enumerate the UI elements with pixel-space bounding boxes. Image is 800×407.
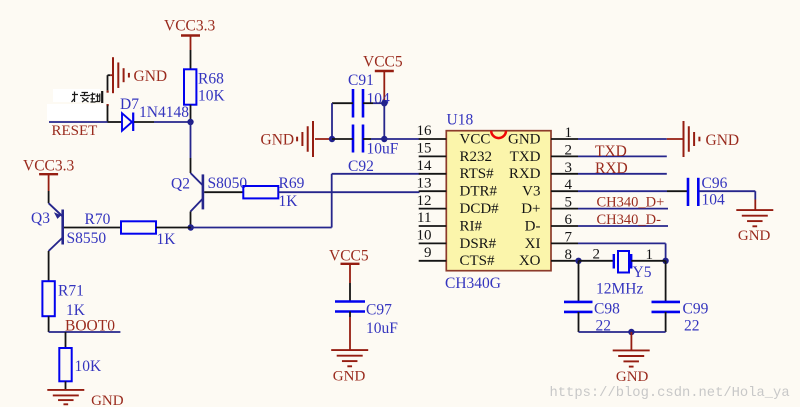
svg-text:RI#: RI#	[460, 218, 483, 234]
svg-text:4: 4	[565, 177, 573, 193]
wire RESET net	[49, 121, 108, 123]
svg-text:S8550: S8550	[67, 230, 107, 247]
wire VCC3.3 to Q3 emitter	[48, 191, 50, 203]
ground GND (button) lead	[108, 74, 114, 76]
capacitor C92 body	[353, 125, 363, 153]
capacitor C97 body	[335, 302, 365, 312]
svg-text:GND: GND	[706, 132, 740, 149]
svg-text:R68: R68	[198, 71, 224, 88]
wire Q3 collector down	[48, 251, 50, 281]
pin 4 stub (right)	[551, 190, 578, 192]
wire Q2 base to R69	[204, 191, 243, 193]
svg-text:7: 7	[565, 229, 573, 245]
wire pin4 V3 (blue)	[578, 190, 667, 192]
capacitor C96 body	[688, 178, 698, 206]
wire crystal to right node	[631, 260, 665, 262]
resistor R71 body	[42, 281, 54, 316]
wire C97 to ground (red)	[349, 317, 351, 350]
svg-text:DSR#: DSR#	[460, 236, 497, 252]
wire pin7 XI down	[665, 243, 667, 260]
wire right node down to C99	[665, 261, 667, 302]
svg-text:CTS#: CTS#	[460, 253, 496, 269]
wire C91 right (blue)	[373, 102, 384, 104]
wire to crystal ground	[630, 332, 632, 350]
wire TXD net	[578, 155, 667, 157]
svg-text:XO: XO	[519, 253, 541, 269]
wire R70 to emitter node	[156, 227, 191, 229]
svg-text:10: 10	[417, 228, 432, 244]
svg-text:CH340_D-: CH340_D-	[597, 212, 662, 228]
power VCC5 (mid) bar	[375, 70, 394, 72]
capacitor C99 body	[652, 302, 681, 312]
ground GND (BOOT0) symbol	[47, 390, 84, 404]
power VCC3.3 (left) bar	[39, 173, 58, 175]
ground GND (C97) symbol	[331, 350, 368, 366]
wire pin7 XI right	[578, 242, 666, 244]
diode D7 body	[122, 113, 133, 132]
svg-text:DCD#: DCD#	[460, 201, 500, 217]
wire node down to Q2 (blue)	[190, 122, 192, 158]
svg-text:6: 6	[565, 212, 573, 228]
wire crystal ground bus	[579, 331, 666, 333]
wire C91 left to L-corner	[332, 102, 353, 104]
power VCC3.3 (left) stem	[48, 174, 50, 191]
svg-text:GND: GND	[134, 68, 168, 85]
pin 12 stub (left)	[419, 208, 447, 210]
svg-text:C97: C97	[366, 302, 392, 319]
wire pin4 V3 to C96 (black)	[667, 190, 687, 192]
wire C92 left	[332, 138, 353, 140]
svg-text:C99: C99	[683, 301, 709, 318]
wire pin1 to GND	[578, 138, 667, 140]
svg-text:1K: 1K	[279, 193, 299, 210]
ground GND (C92) lead	[315, 138, 332, 140]
pushbutton label 按钮 (drawn strokes)	[72, 92, 101, 103]
svg-text:D7: D7	[120, 96, 139, 113]
svg-text:11: 11	[417, 210, 431, 226]
wire riser to pin14 RTS#	[332, 173, 420, 175]
junction node crystal right	[662, 258, 668, 264]
wire C91 right (black)	[363, 102, 373, 104]
svg-text:RTS#: RTS#	[460, 166, 495, 182]
ground GND (button) symbol	[113, 57, 129, 93]
svg-text:GND: GND	[261, 131, 295, 148]
svg-text:22: 22	[684, 318, 700, 335]
pin 8 stub (right)	[551, 260, 578, 262]
pin 2 stub (right)	[551, 155, 578, 157]
svg-text:RXD: RXD	[509, 166, 541, 182]
svg-text:8: 8	[565, 247, 573, 263]
op-chip U18 body	[446, 131, 551, 271]
svg-text:VCC5: VCC5	[329, 248, 369, 265]
wire R69 to pin13 DTR#	[278, 191, 419, 193]
svg-text:GND: GND	[738, 228, 771, 244]
svg-text:12: 12	[417, 193, 432, 209]
wire CH340_D+ net	[578, 208, 668, 210]
svg-text:5: 5	[565, 195, 573, 211]
junction node GND/C92	[329, 136, 335, 142]
wire BOOT0 net	[49, 331, 121, 333]
svg-text:VCC: VCC	[460, 131, 491, 147]
wire C96 right	[700, 190, 756, 192]
svg-text:1N4148: 1N4148	[139, 104, 189, 121]
svg-text:14: 14	[417, 158, 433, 174]
wire VCC3.3 to R68	[190, 50, 192, 69]
pushbutton actuator bar	[101, 91, 103, 103]
svg-text:16: 16	[417, 123, 433, 139]
svg-text:R71: R71	[58, 283, 84, 300]
wire R71 to BOOT0	[48, 316, 50, 332]
svg-text:VCC5: VCC5	[363, 54, 403, 71]
wire C96 down (blue)	[754, 191, 756, 199]
capacitor C98 body	[564, 302, 593, 312]
wire pin8 XO to crystal	[579, 260, 614, 262]
ground GND (pin1) symbol	[684, 121, 700, 157]
svg-text:VCC3.3: VCC3.3	[164, 18, 215, 35]
wire C96 down (red)	[754, 200, 756, 211]
svg-text:BOOT0: BOOT0	[65, 318, 115, 335]
svg-text:10uF: 10uF	[366, 320, 398, 337]
svg-text:1: 1	[565, 125, 573, 141]
ground GND (crystal) symbol	[613, 350, 650, 366]
svg-text:3: 3	[565, 160, 573, 176]
wire L-corner down to gnd node	[331, 103, 333, 139]
pin 7 stub (right)	[551, 242, 578, 244]
crystal Y5 body	[614, 251, 631, 273]
junction node at R68/D7	[187, 119, 193, 125]
pushbutton bottom terminal	[107, 105, 109, 122]
wire C97 to ground (black)	[349, 312, 351, 318]
svg-text:R70: R70	[85, 211, 111, 228]
wire BOOT0 to R72	[65, 332, 67, 348]
wire Q3 base to R70	[64, 227, 121, 229]
svg-text:https://blog.csdn.net/Hola_ya: https://blog.csdn.net/Hola_ya	[550, 385, 790, 401]
pin 3 stub (right)	[551, 173, 578, 175]
capacitor C91 body	[353, 89, 363, 118]
svg-text:RESET: RESET	[52, 123, 98, 139]
svg-text:V3: V3	[522, 184, 540, 200]
svg-text:U18: U18	[447, 112, 474, 129]
svg-text:R69: R69	[279, 175, 305, 192]
svg-text:GND: GND	[333, 368, 366, 384]
svg-text:VCC3.3: VCC3.3	[23, 158, 74, 175]
svg-text:C91: C91	[348, 72, 374, 89]
power VCC5 (bottom) bar	[341, 263, 360, 265]
junction node VCC5/C91	[381, 100, 387, 106]
pin 13 stub (left)	[419, 190, 447, 192]
svg-text:1K: 1K	[66, 302, 86, 319]
svg-text:TXD: TXD	[595, 143, 627, 160]
svg-text:CH340_D+: CH340_D+	[597, 195, 665, 211]
junction node crystal left	[575, 258, 581, 264]
wire RESET to diode	[108, 121, 122, 123]
power VCC3.3 (top) stem	[190, 36, 192, 51]
pin 11 stub (left)	[419, 225, 447, 227]
wire R68 to node	[190, 105, 192, 122]
svg-text:1K: 1K	[157, 231, 177, 248]
wire VCC5 stem to node	[383, 100, 385, 103]
resistor R70 body	[121, 221, 156, 233]
svg-text:9: 9	[424, 245, 432, 261]
wire C92 right (blue)	[371, 138, 384, 140]
wire 10K to ground	[65, 381, 67, 390]
svg-text:12MHz: 12MHz	[596, 281, 643, 298]
svg-text:GND: GND	[616, 369, 649, 385]
wire riser up to pin14 level	[331, 174, 333, 228]
svg-text:15: 15	[417, 141, 432, 157]
pin 6 stub (right)	[551, 225, 578, 227]
svg-text:10K: 10K	[198, 88, 226, 105]
svg-text:C92: C92	[348, 158, 374, 175]
pushbutton top terminal	[107, 75, 109, 90]
svg-text:2: 2	[593, 246, 601, 262]
power VCC5 (bottom) stem	[349, 264, 351, 283]
wire left node down to C98	[578, 261, 580, 302]
wire node down to Q2 (black)	[190, 158, 192, 173]
pin 14 stub (left)	[419, 173, 447, 175]
svg-text:Q2: Q2	[171, 176, 190, 193]
pin 1 stub (right)	[551, 138, 578, 140]
wire Q2 emitter	[190, 212, 192, 228]
white patch above RESET label	[47, 104, 106, 120]
svg-text:Q3: Q3	[31, 210, 50, 227]
junction node at Q2 emitter	[188, 224, 194, 230]
wire to pin16 VCC	[384, 138, 419, 140]
junction node C92/pin16	[381, 136, 387, 142]
pushbutton pin-end marks	[107, 91, 109, 107]
ground GND (C96) symbol	[736, 210, 773, 226]
resistor 10K (pulldown) body	[59, 348, 71, 381]
svg-text:CH340G: CH340G	[445, 275, 501, 292]
wire diode to node (blue)	[154, 121, 191, 123]
svg-text:C96: C96	[702, 175, 728, 192]
svg-text:GND: GND	[508, 131, 541, 147]
transistor Q3 body	[49, 203, 63, 251]
resistor R68 body	[184, 69, 196, 104]
svg-text:Y5: Y5	[633, 264, 652, 281]
wire VCC5 to C97	[349, 283, 351, 302]
svg-text:D-: D-	[525, 218, 541, 234]
svg-text:S8050: S8050	[208, 175, 248, 192]
wire C98 down	[578, 312, 580, 332]
wire CH340_D- net	[578, 225, 668, 227]
ground GND (pin1) lead	[667, 138, 684, 140]
svg-text:XI: XI	[525, 236, 541, 252]
svg-text:13: 13	[417, 175, 432, 191]
svg-text:RXD: RXD	[595, 160, 628, 177]
transistor Q2 body	[191, 173, 203, 212]
wire VCC5 node down to pin16 net	[383, 103, 385, 139]
svg-text:DTR#: DTR#	[460, 184, 498, 200]
wire diode to node (black)	[134, 121, 154, 123]
pin 15 stub (left)	[419, 155, 447, 157]
svg-text:2: 2	[565, 142, 573, 158]
wire C92 right (black)	[363, 138, 371, 140]
pin 10 stub (left)	[419, 242, 447, 244]
white patch behind button label	[53, 89, 100, 102]
op-chip U18 notch	[491, 131, 506, 138]
wire emitter node to riser	[191, 227, 332, 229]
svg-text:10uF: 10uF	[367, 141, 399, 158]
svg-text:D+: D+	[521, 201, 540, 217]
pin 9 stub (left)	[419, 260, 447, 262]
wire C99 down	[665, 312, 667, 332]
svg-text:C98: C98	[594, 301, 620, 318]
power VCC5 (mid) stem	[383, 71, 385, 100]
wire RXD net	[578, 173, 667, 175]
svg-text:104: 104	[702, 192, 726, 209]
pin 5 stub (right)	[551, 208, 578, 210]
pin 16 stub (left)	[419, 138, 447, 140]
svg-text:TXD: TXD	[510, 149, 541, 165]
svg-text:10K: 10K	[75, 358, 103, 375]
resistor R69 body	[243, 186, 278, 198]
svg-text:GND: GND	[91, 393, 124, 407]
svg-text:R232: R232	[460, 149, 493, 165]
ground GND (C92) symbol	[297, 121, 313, 157]
power VCC3.3 (top) bar	[181, 34, 200, 36]
junction node crystal ground	[628, 329, 634, 335]
